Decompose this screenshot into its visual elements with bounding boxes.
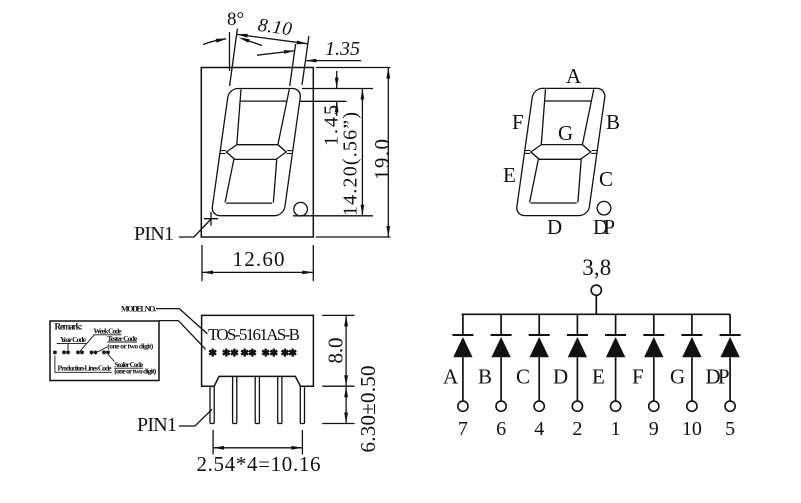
terminal B [496,401,506,411]
model number text TOS-5161AS-B [208,325,300,344]
svg-text:8°: 8° [227,9,244,30]
wire: diode D to terminal [576,357,578,401]
PIN1 leader line (side view) [179,409,212,426]
wire: common node to bus [595,295,597,314]
svg-text:1: 1 [611,418,621,440]
date/lot code asterisks on package [209,349,296,357]
pin number 2 [572,418,582,440]
LED diode A [452,335,473,357]
pin number 1 [611,418,621,440]
svg-text:19.0: 19.0 [370,139,394,180]
wire: bus to diode D [576,314,578,335]
svg-text:(one or two digit): (one or two digit) [114,367,157,376]
pin number 4 [534,418,544,440]
svg-text:2.54*4=10.16: 2.54*4=10.16 [197,452,321,476]
segment label DP [593,215,615,239]
segment B inner boundary [582,89,593,144]
remark title [55,322,83,332]
dimension 12.60 (package width) [202,245,313,281]
LED diode C [529,335,550,357]
svg-text:B: B [478,365,492,389]
svg-text:5: 5 [725,418,735,440]
8 deg vertical reference line [229,32,231,71]
svg-text:10: 10 [682,418,702,440]
terminal C [534,401,544,411]
segment net label DP [706,365,730,389]
front-view 7-segment digit face [211,89,302,216]
dimension 19.0 (package height) [386,68,390,238]
dimension 8.10 (digit width) [237,34,308,44]
svg-text:7: 7 [458,418,468,440]
segment label E [503,163,516,187]
pin number 9 [649,418,659,440]
LED diode D [567,335,588,357]
pin number 5 [725,418,735,440]
6.30 +/- 0.50 text (rotated) [356,366,380,453]
terminal F [649,401,659,411]
terminal G [687,401,697,411]
svg-text:F: F [632,365,644,389]
svg-text:G: G [670,365,685,389]
svg-text:C: C [599,167,613,191]
segment E inner boundary [225,159,234,202]
sealer code pointer line [108,355,114,362]
segment net label E [592,365,605,389]
digit outer outline [516,88,606,215]
svg-text:TOS-5161AS-B: TOS-5161AS-B [208,325,300,344]
extension line: package top [316,67,391,69]
wire: diode A to terminal [462,357,464,401]
segment-B inner extension line [290,44,296,86]
wire: diode B to terminal [500,357,502,401]
wire: bus to diode G [691,314,693,335]
remark asterisks [53,350,109,354]
terminal DP [725,401,735,411]
12.60 text [233,247,285,271]
dimension 1.45 (segment A height) [335,71,339,116]
svg-text:E: E [592,365,605,389]
segment net label G [670,365,685,389]
pin 4 lead [278,376,282,423]
wire: bus to diode F [653,314,655,335]
week code label [94,327,123,336]
segment F inner boundary [538,89,549,144]
segment label C [599,167,613,191]
svg-text:E: E [503,163,516,187]
segment separation notches [524,151,598,154]
LED diode B [491,335,512,357]
segment B inner boundary [278,89,289,144]
wire: diode F to terminal [653,357,655,401]
segment net label F [632,365,644,389]
wire: bus to diode DP [729,314,731,335]
svg-text:4: 4 [534,418,544,440]
PIN1 label (side view) [137,414,177,436]
wire: diode DP to terminal [729,357,731,401]
display package front-view outline [201,68,313,238]
extension line: package bottom [316,236,391,238]
dimension 6.30 +/- 0.50 (lead length) [322,386,354,423]
1.35 text [325,38,360,60]
dimension 14.20(.56") (digit height) [361,89,365,216]
year code label [57,335,87,344]
wire: bus to diode B [500,314,502,335]
extension line: digit bottom [293,215,373,217]
pin 2 lead [233,376,237,423]
svg-text:F: F [512,110,524,134]
segment label G [558,121,573,145]
bus wire [462,313,731,315]
front-view decimal point [294,202,308,216]
svg-text:14.20(.56”): 14.20(.56”) [340,112,362,216]
wire: bus to diode A [462,314,464,335]
segment C inner boundary [271,159,280,202]
2.54*4=10.16 text [197,452,321,476]
pin number 7 [458,418,468,440]
segment net label D [553,365,568,389]
svg-text:DP: DP [593,215,615,239]
8.0 text (rotated) [324,338,348,364]
digit outer outline [211,89,301,216]
svg-text:Year Code: Year Code [60,335,87,344]
tester code pointer line [98,347,108,352]
pin 3 lead [255,376,259,423]
wire: diode G to terminal [691,357,693,401]
pin 5 lead [300,386,304,423]
svg-text:6: 6 [496,418,506,440]
segment C inner boundary [575,159,584,202]
svg-text:PIN1: PIN1 [137,414,177,436]
tester code label [107,334,154,351]
svg-text:D: D [547,215,562,239]
svg-text:Remark:: Remark: [55,322,83,332]
segment-identification digit [515,88,606,215]
year code pointer line [67,343,69,350]
wire: diode E to terminal [615,357,617,401]
MODEL NO. label [121,305,156,314]
pin number 6 [496,418,506,440]
1.45 text (rotated) [321,105,343,146]
svg-text:PIN1: PIN1 [134,223,174,245]
dimension 1.35 (segment B width) arrows [257,50,361,62]
production-lines code label [55,356,112,373]
svg-text:C: C [516,365,530,389]
svg-text:A: A [566,64,582,88]
segment net label B [478,365,492,389]
right edge extension line [302,36,309,85]
svg-text:12.60: 12.60 [233,247,285,271]
dimension 8.0 (package height, side view) [322,315,354,386]
svg-text:3,8: 3,8 [582,255,611,280]
segment label A [566,64,582,88]
terminal A [458,401,468,411]
segment E inner boundary [530,159,539,202]
8 deg angle label [227,9,244,30]
svg-text:D: D [553,365,568,389]
MODEL NO. leader line [156,309,207,334]
terminal E [611,401,621,411]
svg-text:A: A [443,365,459,389]
segment net label C [516,365,530,389]
segment D upper boundary [531,202,577,204]
side-view package outline with bottom standoff notch [202,315,314,386]
segment G outline [530,145,592,160]
PIN1 corner cross mark [204,212,218,226]
extension line: segment A bottom [300,100,347,102]
LED diode DP [720,335,741,357]
dimension 2.54*4=10.16 (lead pitch) [213,430,302,455]
svg-text:1.35: 1.35 [325,38,360,60]
PIN1 leader line (front view) [179,219,211,237]
remark box [50,321,159,381]
segment F inner boundary [233,89,244,144]
wire: bus to diode C [538,314,540,335]
svg-text:6.30±0.50: 6.30±0.50 [356,366,380,453]
svg-text:Production-Lines Code: Production-Lines Code [58,363,113,372]
LED diode F [643,335,664,357]
segment A lower boundary [545,100,591,102]
segment G outline [225,145,287,160]
14.20(.56") text (rotated) [340,112,362,216]
svg-text:DP: DP [706,365,730,389]
segment A lower boundary [240,100,286,102]
svg-text:2: 2 [572,418,582,440]
week code pointer line [80,335,94,351]
terminal D [572,401,582,411]
sealer code label [114,360,157,375]
segment net label A [443,365,459,389]
8.10 text [256,15,293,41]
segment label D [547,215,562,239]
segment label B [606,110,620,134]
wire: diode C to terminal [538,357,540,401]
remark box leader line [159,321,206,350]
svg-text:9: 9 [649,418,659,440]
LED diode G [681,335,702,357]
segment D upper boundary [226,202,272,204]
pin 1 lead [210,386,214,423]
svg-text:8.0: 8.0 [324,338,348,364]
segment label F [512,110,524,134]
extension line: digit top [302,88,373,90]
LED diode E [605,335,626,357]
PIN1 label (front view) [134,223,174,245]
svg-text:B: B [606,110,620,134]
common pin label 3,8 [582,255,611,280]
8 deg angle arc arrows [203,37,262,45]
common terminal node [591,285,601,295]
svg-text:MODEL NO.: MODEL NO. [121,305,156,314]
segment separation notches [219,151,293,154]
svg-text:(one or two digit): (one or two digit) [107,341,154,350]
wire: bus to diode E [615,314,617,335]
segment diagram decimal point [597,201,611,215]
19.0 text (rotated) [370,139,394,180]
pin number 10 [682,418,702,440]
svg-text:G: G [558,121,573,145]
left edge extension line (8 deg) [230,29,238,87]
